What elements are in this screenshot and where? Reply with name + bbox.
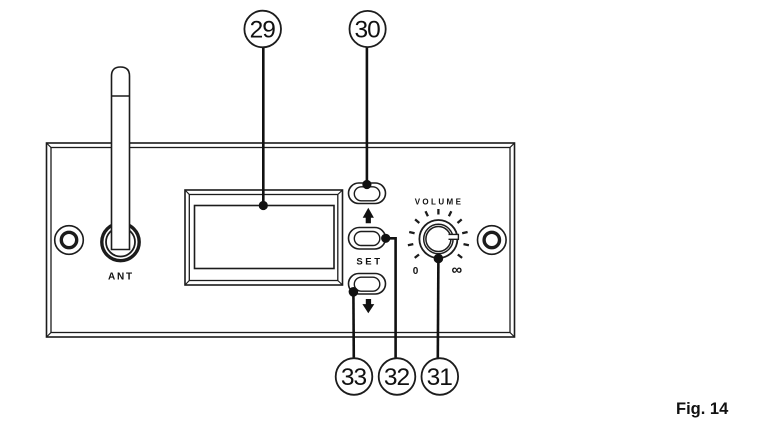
svg-text:SET: SET [356,257,382,268]
svg-text:30: 30 [354,17,380,44]
svg-text:32: 32 [384,364,410,391]
svg-text:Fig. 14: Fig. 14 [676,400,729,418]
svg-text:31: 31 [427,364,453,391]
svg-text:∞: ∞ [451,262,462,279]
svg-text:0: 0 [413,266,419,277]
svg-text:ANT: ANT [108,272,134,283]
svg-text:VOLUME: VOLUME [415,198,464,207]
svg-text:29: 29 [250,17,276,44]
svg-text:33: 33 [341,364,367,391]
